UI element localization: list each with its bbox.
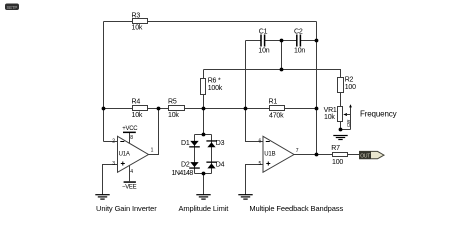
svg-text:100k: 100k — [208, 85, 223, 92]
node VR1 bottom — [339, 128, 343, 132]
wire U1B pin5 to ground — [246, 165, 264, 195]
svg-text:10k: 10k — [168, 112, 179, 119]
svg-text:10k: 10k — [132, 25, 143, 32]
resistor R5 — [168, 99, 185, 119]
svg-text:10n: 10n — [258, 47, 269, 54]
node diode/R6 — [202, 107, 206, 111]
wire diode bridge — [195, 135, 212, 174]
diode D3 — [206, 140, 224, 147]
svg-text:5: 5 — [259, 161, 262, 167]
svg-text:R3: R3 — [132, 12, 141, 19]
wire main row — [104, 108, 317, 110]
svg-text:OUT: OUT — [360, 153, 370, 159]
svg-text:Frequency: Frequency — [360, 109, 397, 118]
svg-text:470k: 470k — [269, 113, 284, 120]
svg-text:10k: 10k — [132, 112, 143, 119]
ground diodes — [196, 195, 210, 199]
wire U1A pin3 to ground — [103, 165, 118, 195]
wire diode stem top — [203, 109, 205, 135]
resistor R6 — [201, 78, 223, 95]
svg-text:R6 *: R6 * — [208, 78, 221, 85]
svg-text:D3: D3 — [216, 140, 225, 147]
svg-text:D2: D2 — [181, 161, 190, 168]
node row2 branch — [280, 68, 284, 72]
diode D1 — [181, 140, 200, 147]
node C1-C2 — [280, 39, 284, 43]
svg-text:SETP: SETP — [7, 5, 18, 10]
op-amp U1B — [259, 136, 299, 172]
svg-text:R5: R5 — [168, 99, 177, 106]
wire left rail — [103, 22, 105, 142]
svg-text:−VEE: −VEE — [122, 184, 137, 190]
potentiometer VR1 — [324, 104, 352, 129]
wire VR1 bottom — [340, 122, 342, 130]
svg-text:100: 100 — [345, 84, 356, 91]
+VCC rail U1A — [122, 126, 138, 133]
wire R2 to VR1 — [340, 93, 342, 107]
svg-text:VR1: VR1 — [324, 107, 337, 114]
svg-text:100: 100 — [332, 159, 343, 166]
diode D4 — [206, 161, 224, 168]
node left branch — [244, 107, 248, 111]
-VEE rail U1A — [122, 181, 137, 190]
node bridge bottom — [202, 172, 206, 176]
svg-text:6: 6 — [259, 139, 262, 145]
ground VR1 — [333, 136, 347, 140]
svg-text:D1: D1 — [181, 140, 190, 147]
resistor R2 — [338, 76, 357, 92]
resistor R1 — [269, 99, 285, 120]
resistor R7 — [331, 145, 347, 166]
node output rail — [315, 153, 319, 157]
node main row at left rail — [102, 107, 106, 111]
svg-text:C2: C2 — [294, 28, 303, 35]
svg-text:C1: C1 — [259, 28, 268, 35]
wire row2 to R2 — [204, 70, 341, 78]
wire U1A output feedback — [149, 109, 159, 155]
svg-text:Amplitude Limit: Amplitude Limit — [179, 204, 230, 213]
svg-text:Unity Gain Inverter: Unity Gain Inverter — [96, 204, 157, 213]
resistor R3 — [132, 12, 148, 31]
svg-text:1N4148: 1N4148 — [172, 170, 194, 177]
wire diode stem bottom — [203, 174, 205, 195]
node R4-R5 — [157, 107, 161, 111]
node cap row rail — [315, 39, 319, 43]
svg-text:+VCC: +VCC — [122, 126, 138, 132]
svg-text:CW: CW — [346, 119, 351, 127]
corner badge — [5, 4, 19, 11]
svg-text:R1: R1 — [269, 99, 278, 106]
op-amp U1A — [112, 135, 153, 175]
wire R6 leads — [203, 70, 205, 109]
capacitor C1 — [258, 28, 269, 54]
svg-text:8: 8 — [130, 135, 133, 141]
svg-text:R2: R2 — [345, 76, 354, 83]
OUT tag — [360, 151, 385, 159]
svg-text:R7: R7 — [331, 145, 340, 152]
wire right rail — [316, 22, 318, 155]
wire left branch to pin6 — [246, 41, 264, 142]
svg-text:R4: R4 — [132, 99, 141, 106]
svg-text:U1A: U1A — [119, 151, 130, 157]
svg-text:4: 4 — [130, 169, 133, 175]
svg-text:10n: 10n — [294, 47, 305, 54]
svg-text:U1B: U1B — [264, 151, 275, 157]
ground U1B — [238, 195, 252, 199]
wire U1A pin2 — [104, 141, 118, 143]
capacitor C2 — [294, 28, 305, 54]
wire U1B output row — [294, 154, 360, 156]
svg-text:3: 3 — [112, 161, 115, 167]
svg-text:1: 1 — [151, 148, 154, 154]
wire top row R3 — [104, 21, 317, 23]
wire U1A pin4 stub — [129, 165, 131, 181]
wire cap row — [246, 40, 317, 42]
node bridge top — [202, 133, 206, 137]
svg-text:D4: D4 — [216, 161, 225, 168]
svg-text:10k: 10k — [324, 114, 335, 121]
wire U1A pin8 stub — [129, 133, 131, 143]
node R1 right rail — [315, 107, 319, 111]
resistor R4 — [132, 99, 148, 119]
wire C mid branch — [281, 41, 283, 70]
diode D2 — [172, 161, 200, 177]
svg-text:2: 2 — [112, 139, 115, 145]
svg-text:Multiple Feedback Bandpass: Multiple Feedback Bandpass — [249, 204, 343, 213]
ground U1A — [95, 195, 109, 199]
svg-text:7: 7 — [296, 148, 299, 154]
